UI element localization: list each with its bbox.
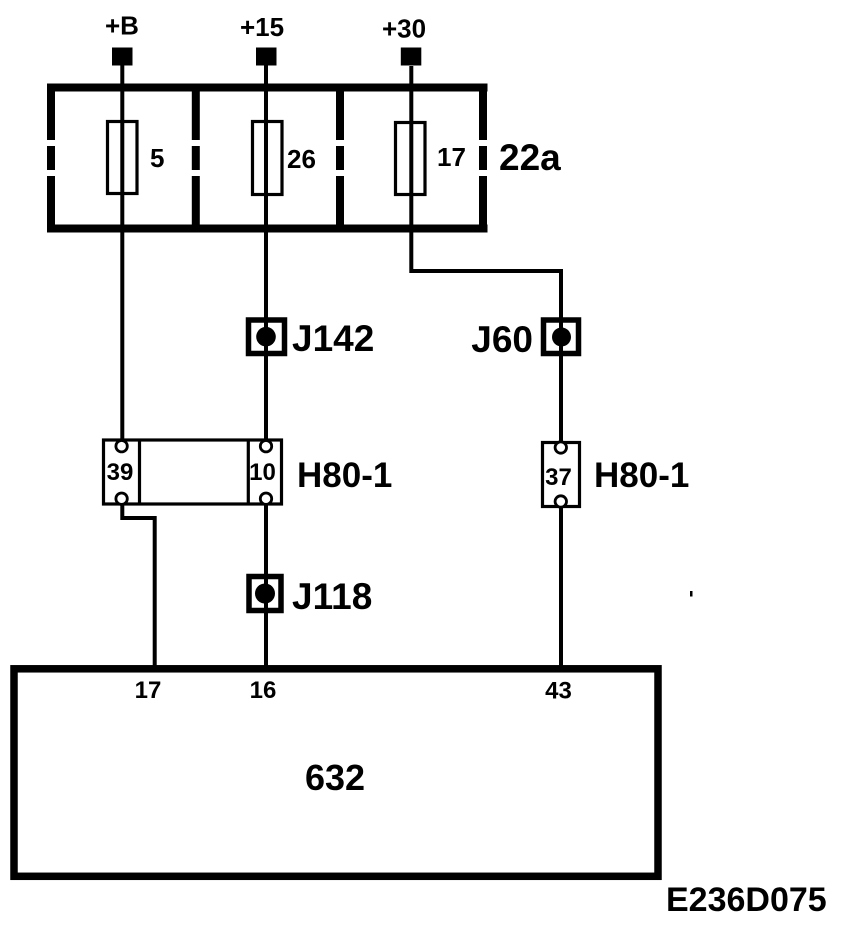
svg-text:17: 17	[437, 142, 466, 172]
connector J142 dot	[256, 327, 276, 347]
svg-text:H80-1: H80-1	[594, 456, 689, 495]
H80-1 pin 10 top circle	[260, 441, 271, 452]
wire from +30 through fuse 17, jog right, down through J60 to H80-1 pin 37	[411, 66, 561, 447]
svg-text:J142: J142	[292, 318, 374, 359]
terminal square +B	[112, 48, 133, 66]
svg-text:39: 39	[107, 459, 134, 486]
H80-1 pin 39 top circle	[116, 441, 127, 452]
connector J118 square	[249, 577, 281, 611]
svg-text:10: 10	[249, 459, 276, 486]
svg-text:H80-1: H80-1	[297, 456, 392, 495]
fuse box 22a outline	[47, 84, 488, 232]
wire from +B through fuse 5 down to H80-1 pin 39	[120, 65, 124, 446]
svg-text:17: 17	[135, 677, 162, 704]
svg-text:J60: J60	[471, 319, 533, 360]
svg-text:22a: 22a	[499, 137, 561, 178]
ECU box 632	[14, 669, 658, 877]
svg-text:+15: +15	[240, 12, 284, 42]
H80-1 pin 39 bottom circle	[116, 493, 127, 504]
svg-text:16: 16	[250, 677, 277, 704]
svg-text:26: 26	[287, 144, 316, 174]
fuse 17 body	[396, 123, 426, 195]
svg-text:J118: J118	[292, 576, 372, 617]
connector H80-1 left block body	[104, 440, 282, 504]
wire H80-1 pin 39 jog to ECU pin 17	[122, 505, 154, 669]
connector J142 square	[249, 320, 285, 354]
H80-1 left cell separator a	[138, 440, 141, 504]
svg-text:632: 632	[305, 757, 365, 798]
H80-1 pin 37 bottom circle	[555, 496, 566, 507]
terminal square +15	[256, 48, 277, 66]
wire H80-1 pin 10 through J118 to ECU pin 16	[264, 505, 268, 669]
terminal square +30	[401, 48, 422, 66]
svg-text:+B: +B	[105, 11, 139, 41]
separator 1 (dashed)	[192, 84, 200, 232]
right border (dashed)	[479, 84, 487, 232]
svg-text:+30: +30	[382, 14, 426, 44]
H80-1 pin 10 bottom circle	[260, 493, 271, 504]
fuse 26 body	[253, 122, 283, 195]
H80-1 left cell separator b	[247, 440, 250, 504]
wire H80-1 pin 37 to ECU pin 43	[559, 508, 563, 669]
wire from +15 through fuse 26 down to H80-1 pin 10	[264, 65, 268, 446]
connector J60 square	[544, 320, 579, 354]
connector J118 dot	[255, 584, 275, 604]
svg-text:E236D075: E236D075	[666, 881, 827, 919]
svg-text:43: 43	[545, 678, 572, 705]
separator 2 (dashed)	[336, 84, 344, 232]
connector H80-1 right block body	[543, 443, 580, 507]
svg-text:5: 5	[150, 143, 164, 173]
stray scan speck	[690, 591, 693, 597]
top border	[47, 84, 488, 92]
bottom border	[47, 225, 488, 233]
fuse 5 body	[108, 122, 138, 194]
H80-1 pin 37 top circle	[555, 442, 566, 453]
svg-text:37: 37	[545, 464, 572, 491]
left border (dashed)	[47, 84, 55, 232]
connector J60 dot	[552, 328, 571, 347]
